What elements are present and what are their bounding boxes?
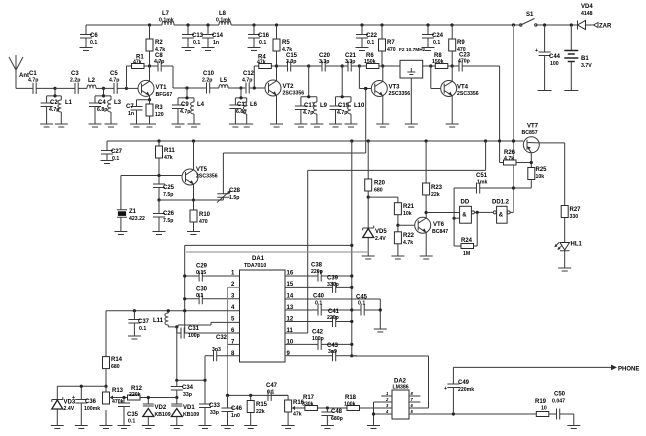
junction C16-rail <box>252 23 255 26</box>
node C46 <box>226 394 229 397</box>
varicap VD2 <box>142 396 171 429</box>
svg-text:L5: L5 <box>220 78 228 84</box>
svg-text:150k: 150k <box>432 59 444 65</box>
node osc tap <box>364 87 367 90</box>
svg-text:L7: L7 <box>162 11 170 17</box>
IC DA1 <box>240 256 286 362</box>
svg-text:&: & <box>462 213 467 219</box>
svg-text:0.1: 0.1 <box>267 390 274 396</box>
inductor L9 <box>310 97 327 127</box>
wire grey agc line <box>186 251 368 253</box>
resistor R17 <box>295 395 327 411</box>
svg-text:C5: C5 <box>110 71 118 77</box>
resistor R3 <box>143 100 164 127</box>
svg-text:4.7p: 4.7p <box>242 78 252 84</box>
inductor L3 <box>105 96 122 127</box>
node VT5 base <box>157 174 160 177</box>
capacitor C30 <box>183 287 239 305</box>
antenna <box>9 55 29 88</box>
svg-text:220mk: 220mk <box>458 387 474 393</box>
svg-text:C24: C24 <box>432 33 444 39</box>
svg-text:F2 10.7MHz: F2 10.7MHz <box>399 47 426 53</box>
resistor R4 <box>253 55 277 90</box>
svg-text:R20: R20 <box>374 181 386 187</box>
svg-text:0.1: 0.1 <box>315 301 322 307</box>
capacitor C32 <box>205 335 240 380</box>
svg-text:ZAR: ZAR <box>599 24 612 30</box>
capacitor C43 <box>285 343 353 361</box>
capacitor C1 <box>16 71 55 94</box>
svg-text:680: 680 <box>111 364 120 370</box>
svg-text:C35: C35 <box>127 412 139 418</box>
svg-text:L1: L1 <box>65 100 73 106</box>
svg-text:3.3p: 3.3p <box>345 59 355 65</box>
wire VT3 base <box>359 66 371 89</box>
svg-text:VD4: VD4 <box>581 4 593 10</box>
svg-text:4.7p: 4.7p <box>180 109 190 115</box>
svg-text:C2: C2 <box>50 100 58 106</box>
junction C13-rail <box>186 23 189 26</box>
svg-text:4148: 4148 <box>581 11 593 17</box>
svg-text:L11: L11 <box>153 318 164 324</box>
svg-text:7.5p: 7.5p <box>163 218 173 224</box>
wire pin4 tuning line <box>106 311 240 356</box>
capacitor C11 <box>229 98 248 127</box>
wire tank3 stem <box>178 88 194 98</box>
inductor L11 <box>153 311 177 327</box>
svg-text:VT6: VT6 <box>433 222 445 228</box>
svg-text:R10: R10 <box>199 212 211 218</box>
svg-text:7.5p: 7.5p <box>163 192 173 198</box>
capacitor C14 <box>202 25 224 51</box>
svg-text:22k: 22k <box>431 192 440 198</box>
svg-text:47k: 47k <box>164 155 173 161</box>
svg-text:4.7p: 4.7p <box>337 110 347 116</box>
inductor L7 <box>159 11 174 25</box>
wire collector to gate <box>426 212 460 214</box>
IC DA2 <box>392 379 409 420</box>
junction C24-rail <box>426 23 429 26</box>
svg-text:L6: L6 <box>250 102 258 108</box>
resistor R19 <box>535 399 557 417</box>
node dots pin4 line <box>133 309 136 312</box>
svg-text:R5: R5 <box>282 40 290 46</box>
svg-text:C48: C48 <box>331 409 343 415</box>
svg-text:R9: R9 <box>457 40 465 46</box>
node VT6 collector <box>425 211 428 214</box>
svg-text:2SC3356: 2SC3356 <box>283 91 305 97</box>
gate DD1.2 <box>490 200 513 224</box>
svg-text:C31: C31 <box>188 326 200 332</box>
terminal PHONE <box>611 365 639 373</box>
resistor R26 <box>500 141 532 165</box>
svg-text:HL1: HL1 <box>571 242 583 248</box>
svg-text:PHONE: PHONE <box>618 367 639 373</box>
wire pin11 riser <box>308 141 486 333</box>
svg-text:2.4V: 2.4V <box>64 406 75 412</box>
node C9 tank <box>185 86 188 89</box>
capacitor C8 <box>150 53 207 88</box>
crystal Z1 <box>114 176 145 235</box>
svg-text:&: & <box>499 213 504 219</box>
junction R7-rail <box>380 23 383 26</box>
inductor L1 <box>55 96 73 127</box>
node tank1 <box>53 87 56 90</box>
svg-text:C46: C46 <box>231 406 243 412</box>
svg-text:C50: C50 <box>554 392 566 398</box>
svg-text:0.1: 0.1 <box>139 326 146 332</box>
resistor R27 <box>561 143 581 243</box>
svg-text:C37: C37 <box>138 319 150 325</box>
node VT3 collector <box>381 64 384 67</box>
node tank5 <box>307 64 310 67</box>
svg-text:47k: 47k <box>257 60 266 66</box>
svg-text:C25: C25 <box>163 185 175 191</box>
svg-text:10k: 10k <box>536 174 545 180</box>
wire R20 to R21 <box>368 197 398 203</box>
svg-text:KB109: KB109 <box>183 412 199 418</box>
svg-text:R19: R19 <box>535 399 547 405</box>
junction R2-rail <box>148 23 151 26</box>
wire osc feedback <box>223 89 365 154</box>
wire base <box>127 87 139 89</box>
capacitor C26 <box>153 200 175 235</box>
svg-text:L10: L10 <box>354 103 365 109</box>
capacitor C36 <box>72 385 100 429</box>
wire pin11 stub <box>285 332 308 334</box>
svg-text:C7: C7 <box>126 104 134 110</box>
svg-text:R17: R17 <box>303 395 315 401</box>
svg-text:C22: C22 <box>366 33 378 39</box>
svg-text:R23: R23 <box>431 185 443 191</box>
pin numbers DA1 left <box>231 271 235 358</box>
node varicap line <box>175 396 178 399</box>
svg-text:DD: DD <box>461 200 470 206</box>
wire mid line <box>107 140 523 142</box>
resistor R6 <box>359 53 382 69</box>
svg-text:C29: C29 <box>196 264 208 270</box>
wire pin5 jog <box>178 322 240 327</box>
node DA2 gnd <box>372 412 375 415</box>
wire audio line <box>228 394 289 396</box>
svg-text:2SC3356: 2SC3356 <box>196 174 218 180</box>
svg-text:1.5p: 1.5p <box>229 195 239 201</box>
svg-text:Z1: Z1 <box>129 209 137 215</box>
ground DA2 <box>367 426 380 429</box>
svg-text:C11: C11 <box>237 102 248 108</box>
pins DA2 left <box>381 396 392 414</box>
capacitor C19 <box>329 97 350 127</box>
svg-text:C33: C33 <box>209 403 221 409</box>
svg-text:TDA7010: TDA7010 <box>244 263 266 269</box>
svg-text:47k: 47k <box>133 60 142 66</box>
svg-text:VT2: VT2 <box>283 84 295 90</box>
svg-text:BC847: BC847 <box>432 229 448 235</box>
svg-text:VT4: VT4 <box>457 85 469 91</box>
svg-text:R24: R24 <box>461 238 473 244</box>
svg-text:1n: 1n <box>213 40 219 46</box>
resistor R22 <box>391 225 414 259</box>
pins DA2 right <box>409 396 420 414</box>
resistor R15 <box>244 395 267 428</box>
node VT1 emitter <box>148 98 151 101</box>
inductor L6 <box>240 98 257 127</box>
inductor L10 <box>345 97 366 127</box>
node VT6 base <box>396 224 399 227</box>
node VT4 collector <box>451 64 454 67</box>
capacitor C10 <box>202 71 219 94</box>
svg-text:C6: C6 <box>90 33 98 39</box>
junction C22-rail <box>360 23 363 26</box>
svg-text:3.3p: 3.3p <box>286 59 296 65</box>
svg-text:VT3: VT3 <box>389 85 401 91</box>
resistor R18 <box>327 395 381 411</box>
svg-text:VT1: VT1 <box>156 85 168 91</box>
svg-text:47k: 47k <box>293 412 302 418</box>
capacitor C3 <box>55 71 87 94</box>
svg-text:R11: R11 <box>164 148 175 154</box>
capacitor C34 <box>171 380 194 398</box>
node VT2 collector <box>275 64 278 67</box>
wire tank2 stem <box>95 88 111 96</box>
svg-text:0.15: 0.15 <box>196 270 206 276</box>
resistor R1 <box>127 55 150 89</box>
wire top rail segments <box>86 24 592 26</box>
svg-text:DD1.2: DD1.2 <box>492 200 510 206</box>
capacitor C13 <box>182 25 204 51</box>
resistor R16 variable <box>282 395 305 428</box>
svg-text:220k: 220k <box>129 392 141 398</box>
svg-text:C32: C32 <box>216 335 228 341</box>
svg-text:0.1mk: 0.1mk <box>159 18 174 24</box>
junction C44-rail <box>543 23 546 26</box>
svg-text:R27: R27 <box>570 207 582 213</box>
diode VD4 <box>578 4 594 30</box>
svg-text:B1: B1 <box>581 56 589 62</box>
svg-text:C10: C10 <box>203 71 215 77</box>
inductor L2 <box>87 78 104 88</box>
resistor R12 <box>111 386 143 400</box>
capacitor C9 <box>172 98 191 127</box>
wire pin14 <box>285 299 380 310</box>
capacitor C41 <box>285 309 353 327</box>
resistor R8 <box>423 53 453 69</box>
capacitor C33 <box>199 380 221 428</box>
svg-text:LM386: LM386 <box>393 385 409 391</box>
svg-text:R2: R2 <box>155 40 163 46</box>
capacitor C44 <box>535 25 561 91</box>
resistor R11 <box>156 141 176 176</box>
svg-text:470p: 470p <box>458 59 470 65</box>
wire supply to DA2 <box>352 356 429 408</box>
capacitor C15 <box>277 53 309 72</box>
capacitor C24 <box>422 25 444 51</box>
resistor R21 <box>394 203 414 226</box>
capacitor C48 <box>321 408 343 429</box>
svg-text:C1: C1 <box>29 71 37 77</box>
svg-text:C16: C16 <box>258 33 270 39</box>
node tank2 <box>102 87 105 90</box>
svg-text:680: 680 <box>374 188 383 194</box>
svg-text:C38: C38 <box>311 263 323 269</box>
svg-text:220p: 220p <box>327 315 339 321</box>
wire tank1 stem <box>47 88 62 96</box>
svg-text:C44: C44 <box>549 54 561 60</box>
svg-text:+: + <box>72 395 75 401</box>
capacitor C35 <box>118 396 139 429</box>
capacitor C42 <box>285 330 353 350</box>
resistor R23 <box>423 141 443 213</box>
svg-text:4.7p: 4.7p <box>28 78 38 84</box>
wire C33 branch <box>177 379 205 381</box>
svg-text:BFG67: BFG67 <box>156 92 173 98</box>
resistor R25 <box>514 163 548 189</box>
svg-text:L8: L8 <box>219 11 227 17</box>
node DD input <box>453 217 456 220</box>
capacitor C23 <box>452 53 499 142</box>
transistor VT2 <box>265 66 304 127</box>
svg-text:R14: R14 <box>111 357 123 363</box>
wire varicap column <box>176 327 178 380</box>
node osc divider <box>157 198 160 201</box>
svg-text:+: + <box>535 48 538 54</box>
svg-text:100: 100 <box>550 61 559 67</box>
inductor L8 <box>216 11 231 25</box>
capacitor C7 <box>126 100 150 127</box>
svg-text:R21: R21 <box>403 204 415 210</box>
node R20 bottom <box>367 196 370 199</box>
capacitor C47 <box>266 383 288 401</box>
svg-text:100p: 100p <box>188 333 200 339</box>
svg-text:S1: S1 <box>526 12 534 18</box>
svg-text:1M: 1M <box>463 251 470 257</box>
svg-text:L9: L9 <box>320 103 328 109</box>
svg-text:L3: L3 <box>114 100 122 106</box>
svg-text:R13: R13 <box>112 388 124 394</box>
wire tank4 stem <box>235 88 246 98</box>
node C33 top <box>203 379 206 382</box>
svg-text:33p: 33p <box>183 392 192 398</box>
svg-text:330k: 330k <box>302 402 314 408</box>
varicap VD1 <box>170 398 199 429</box>
wire left feed line <box>185 245 352 333</box>
wire bias line <box>57 385 106 387</box>
capacitor C50 <box>552 392 580 429</box>
svg-text:C3: C3 <box>71 71 79 77</box>
node VT3 base drop <box>358 64 361 67</box>
capacitor C27 <box>101 141 123 164</box>
svg-text:2.4V: 2.4V <box>375 236 386 242</box>
node bus top cross <box>350 244 353 247</box>
svg-text:220p: 220p <box>311 269 323 275</box>
led HL1 <box>554 242 582 272</box>
svg-text:2SC3356: 2SC3356 <box>457 91 479 97</box>
svg-text:0.1: 0.1 <box>196 293 203 299</box>
resistor R5 <box>273 25 292 66</box>
gate DD <box>454 200 490 224</box>
svg-text:VD1: VD1 <box>183 405 195 411</box>
svg-text:0.1: 0.1 <box>193 40 200 46</box>
resistor R9 <box>449 25 466 66</box>
capacitor C12 <box>241 71 265 94</box>
svg-text:C30: C30 <box>196 287 208 293</box>
svg-text:C9: C9 <box>181 102 189 108</box>
svg-text:+: + <box>444 386 447 392</box>
zener VD5 <box>362 197 388 259</box>
capacitor C6 <box>80 25 99 51</box>
svg-text:680p: 680p <box>331 416 343 422</box>
svg-text:DA1: DA1 <box>252 256 265 262</box>
junction B1-rail <box>570 23 573 26</box>
svg-text:R18: R18 <box>345 395 357 401</box>
node R13 top <box>104 385 107 388</box>
wire grey supply drop <box>513 25 515 212</box>
resistor R7 <box>379 25 396 66</box>
svg-text:C14: C14 <box>212 33 224 39</box>
svg-text:VT7: VT7 <box>527 124 539 130</box>
svg-text:C51: C51 <box>476 173 488 179</box>
wire osc <box>159 199 223 201</box>
node VT7 collector <box>530 161 533 164</box>
inductor L4 <box>188 98 205 127</box>
capacitor C37 <box>128 311 150 339</box>
svg-text:2.2p: 2.2p <box>70 78 80 84</box>
svg-text:3.7V: 3.7V <box>581 63 592 69</box>
svg-text:BC857: BC857 <box>522 130 538 136</box>
svg-text:423.22: 423.22 <box>129 216 145 222</box>
capacitor C22 <box>356 25 378 51</box>
node varicap top <box>175 325 178 328</box>
junction grey-mid <box>512 139 515 142</box>
node R15 <box>249 394 252 397</box>
svg-text:2SC3356: 2SC3356 <box>389 91 411 97</box>
transistor VT1 <box>138 66 172 100</box>
capacitor C29 <box>183 264 239 282</box>
resistor R24 <box>454 212 477 257</box>
capacitor C31 <box>177 326 240 339</box>
capacitor C25 <box>153 176 175 201</box>
junction bus-mid <box>350 139 353 142</box>
capacitor C39 <box>285 276 353 293</box>
transistor VT3 <box>371 66 410 127</box>
junction R11-mid <box>157 139 160 142</box>
svg-text:470k: 470k <box>112 399 124 405</box>
capacitor C28 trimmer <box>217 153 241 203</box>
svg-text:0.1mk: 0.1mk <box>216 18 231 24</box>
svg-text:0.1: 0.1 <box>112 156 119 162</box>
svg-text:C40: C40 <box>313 294 325 300</box>
capacitor C46 <box>221 395 243 428</box>
svg-text:4.7p: 4.7p <box>109 78 119 84</box>
resistor R2 <box>146 25 165 66</box>
node C34 top <box>175 379 178 382</box>
capacitor C2 <box>40 96 59 127</box>
wire pin2 drop grey <box>228 287 240 395</box>
capacitor C4 <box>89 96 108 127</box>
capacitor C20 <box>309 53 343 72</box>
svg-text:VT5: VT5 <box>196 167 208 173</box>
resistor R20 <box>365 141 386 197</box>
node grey C51 <box>512 186 515 189</box>
pin numbers DA1 right <box>287 271 294 358</box>
wire pin7 stub <box>228 343 240 345</box>
resistor R14 <box>103 356 123 386</box>
svg-text:10: 10 <box>541 406 547 412</box>
wire VT4 base <box>431 66 440 89</box>
junction R9-rail <box>450 23 453 26</box>
svg-text:3.3p: 3.3p <box>319 59 329 65</box>
filter F2 <box>383 47 426 127</box>
